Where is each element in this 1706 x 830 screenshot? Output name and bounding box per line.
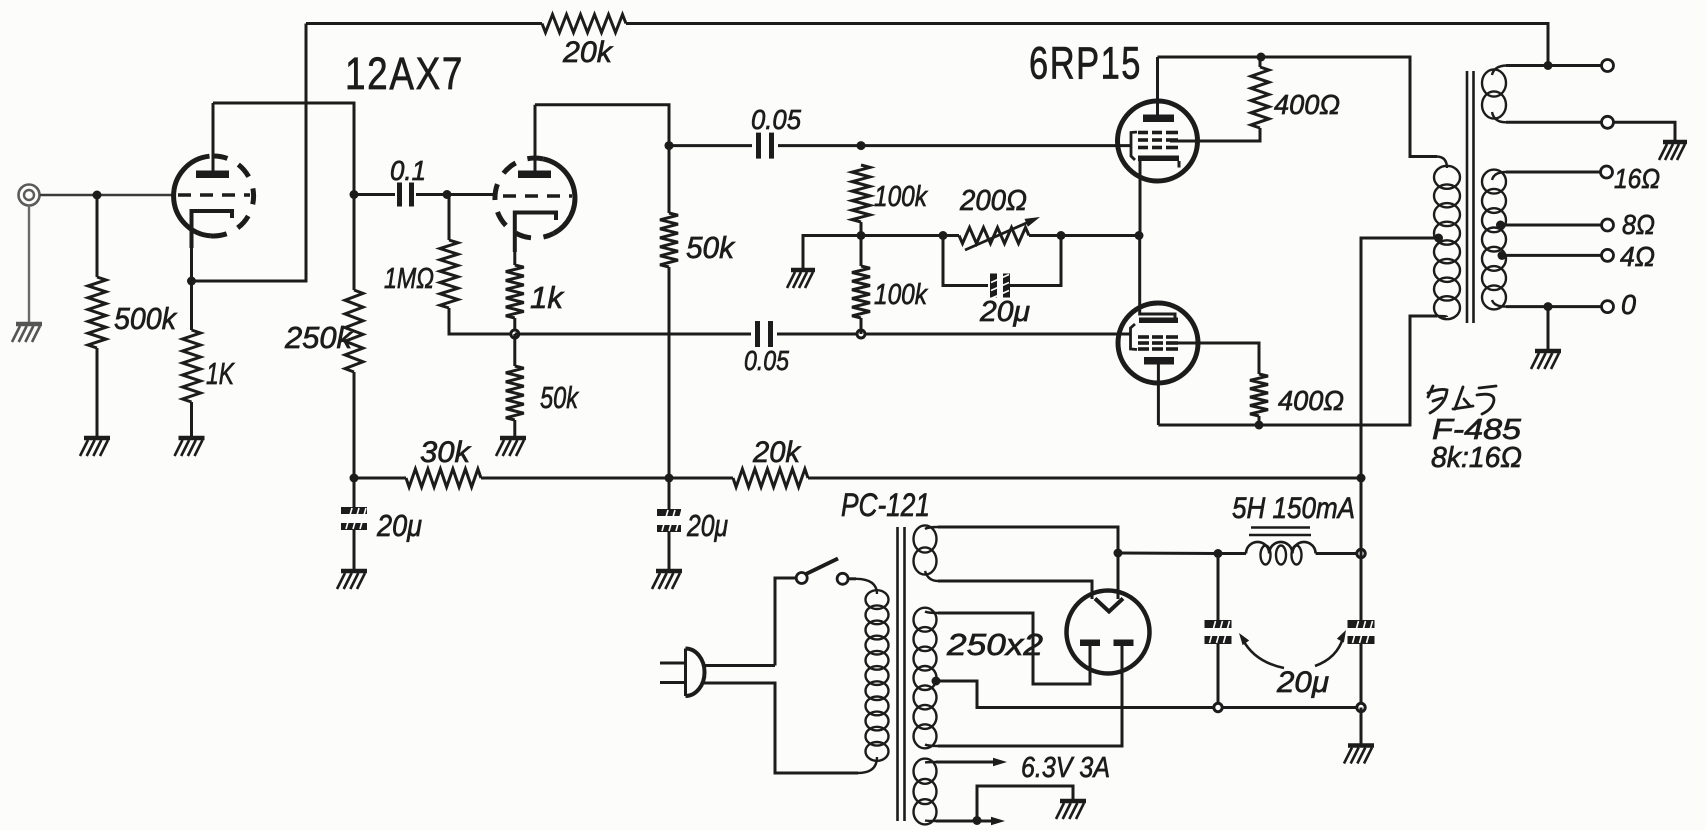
svg-text:100k: 100k xyxy=(874,279,928,311)
node rail left xyxy=(350,474,359,483)
label 20u right xyxy=(686,508,728,543)
wire 8 ohm tap xyxy=(1501,224,1602,227)
terminal feedback bottom xyxy=(1602,116,1614,128)
terminal 16 ohm xyxy=(1601,166,1613,178)
wire 6.3V bottom lead xyxy=(936,817,1005,825)
svg-text:50k: 50k xyxy=(540,380,579,415)
svg-text:30k: 30k xyxy=(420,436,472,469)
ground bias network xyxy=(787,270,815,288)
terminal 0 xyxy=(1602,301,1614,313)
node V1b cathode xyxy=(511,330,519,338)
label 1K xyxy=(206,356,235,391)
label 0.1 xyxy=(390,155,426,186)
wire cathode node to 50k xyxy=(513,334,516,366)
svg-text:500k: 500k xyxy=(114,301,177,336)
svg-text:PC-121: PC-121 xyxy=(841,487,930,523)
node return left xyxy=(1214,703,1222,711)
svg-text:0.05: 0.05 xyxy=(744,345,789,376)
triode V1b grid dashes xyxy=(503,194,572,198)
wire 5V top to B+ node xyxy=(938,527,1118,553)
label 6RP15 xyxy=(1029,38,1142,89)
label 20u filter xyxy=(1276,666,1329,699)
label 20k feedback xyxy=(562,36,614,69)
capacitor 20u decoupling right xyxy=(657,509,682,532)
node 4 ohm tap xyxy=(1498,251,1507,260)
rectifier tube envelope xyxy=(1067,591,1150,674)
node 400 ohm upper xyxy=(1257,53,1266,62)
ground main filter xyxy=(1344,746,1374,764)
wire grid node to 1M xyxy=(447,195,449,241)
node 100k mid xyxy=(857,231,866,240)
wire B+ rail left segment xyxy=(354,477,406,480)
wire input jack to grid V1a xyxy=(40,194,173,197)
wire 20u right leads xyxy=(668,478,671,570)
pentode upper cathode xyxy=(1138,156,1179,168)
node feedback takeoff xyxy=(1544,61,1553,70)
node 0 tap ground xyxy=(1544,302,1553,311)
resistor 500k grid leak xyxy=(88,277,106,348)
label 30k xyxy=(420,436,472,469)
pentode upper grid bracket xyxy=(1131,132,1137,160)
svg-text:250x2: 250x2 xyxy=(946,627,1043,662)
svg-text:0.05: 0.05 xyxy=(751,104,801,135)
inductor choke 5H 150mA xyxy=(1218,528,1356,565)
wire switch to primary xyxy=(848,577,856,580)
wire lower screen lead xyxy=(1170,343,1259,374)
resistor 20k feedback xyxy=(542,15,626,33)
wire 0 tap to ground xyxy=(1547,307,1550,350)
switch power xyxy=(796,559,848,585)
wire plate node to 250k xyxy=(353,195,356,291)
wire feedback winding bottom xyxy=(1506,121,1601,124)
resistor 30k decoupling xyxy=(406,469,481,487)
pentode upper plate bar xyxy=(1143,115,1174,123)
node return right xyxy=(1357,703,1365,711)
ground feedback winding xyxy=(1659,142,1687,160)
label 5H 150mA xyxy=(1232,492,1355,525)
label 20u bypass xyxy=(979,296,1030,328)
wire lower plate lead xyxy=(1157,364,1160,425)
arrow to left filter cap xyxy=(1239,633,1284,668)
capacitor 20u decoupling left xyxy=(341,507,367,530)
wire V1a cathode to node xyxy=(190,218,193,281)
triode V1b 12AX7 envelope xyxy=(495,158,575,238)
wire jack sleeve to ground xyxy=(28,206,30,324)
wire cathode node to 1K xyxy=(190,281,193,330)
wire V1b cathode to 1k xyxy=(513,252,516,265)
svg-text:16Ω: 16Ω xyxy=(1614,163,1660,194)
resistor 400 ohm lower screen xyxy=(1250,374,1268,416)
node HV center tap xyxy=(932,677,941,686)
wire 0.05 top to upper grid xyxy=(778,144,1131,147)
pentode lower plate bar xyxy=(1144,357,1174,365)
wire upper cathode lead xyxy=(1139,160,1142,236)
wire filter right to return xyxy=(1360,644,1363,708)
potentiometer 200 ohm xyxy=(959,217,1040,250)
wire feedback winding top xyxy=(1506,64,1601,67)
triode V1a grid dashes xyxy=(178,193,250,197)
wire choke left to cap xyxy=(1217,554,1220,621)
wire V1a plate lead xyxy=(212,103,215,171)
transformer OPT secondary winding xyxy=(1482,170,1506,310)
node 6.3V ground tap xyxy=(973,816,982,825)
node 400 ohm lower xyxy=(1255,421,1264,430)
capacitor 0.05 top coupling xyxy=(759,133,772,159)
wire V1b plate lead xyxy=(534,105,537,171)
svg-text:20k: 20k xyxy=(752,436,802,469)
wire 0 tap xyxy=(1506,305,1601,308)
transformer PT core xyxy=(898,527,905,821)
wire 1k to cathode node xyxy=(513,318,516,334)
node rail right xyxy=(1357,474,1366,483)
label 20u left xyxy=(376,508,422,543)
wire 50k to ground xyxy=(513,420,516,437)
wire HV top to left anode xyxy=(938,613,1090,684)
svg-text:5H 150mA: 5H 150mA xyxy=(1232,492,1355,525)
node rectifier output xyxy=(1114,549,1123,558)
pentode lower cathode xyxy=(1139,236,1178,324)
svg-text:1MΩ: 1MΩ xyxy=(384,263,434,295)
node output cathodes xyxy=(1135,231,1144,240)
label 1M xyxy=(384,263,434,295)
wire 6.3V tap to ground xyxy=(977,786,1073,821)
wire cathode node to 0.05 bottom xyxy=(515,333,751,336)
ground input jack xyxy=(12,324,42,342)
transformer OPT primary winding xyxy=(1434,157,1460,320)
wire 50k load to B+ rail xyxy=(668,267,671,478)
svg-text:20μ: 20μ xyxy=(376,508,422,543)
wire upper plate lead xyxy=(1156,57,1159,115)
resistor 1M grid leak xyxy=(440,240,458,308)
label Tamura katakana xyxy=(1428,386,1496,414)
wire HV bottom to right anode xyxy=(938,646,1122,746)
svg-text:20μ: 20μ xyxy=(686,508,728,543)
svg-text:8k:16Ω: 8k:16Ω xyxy=(1431,442,1522,474)
label 0 terminal xyxy=(1621,289,1636,320)
resistor 1K V1a cathode xyxy=(183,330,201,402)
pentode upper grids xyxy=(1138,133,1178,148)
label F-485 xyxy=(1432,414,1522,446)
triode V1b plate bar xyxy=(518,171,551,179)
wire 20u bypass right xyxy=(1010,236,1061,286)
wire plate node to 0.1 cap xyxy=(354,193,395,196)
resistor 1k V1b cathode xyxy=(506,265,524,318)
node OPT center tap xyxy=(1434,234,1443,243)
input jack J1 xyxy=(19,185,40,206)
wire 400 ohm lower to plate line xyxy=(1258,416,1261,425)
ground 20u right xyxy=(652,571,682,589)
wire 0.05 bottom to lower grid xyxy=(777,333,1131,336)
label 20k rail xyxy=(752,436,802,469)
node rail mid xyxy=(665,474,674,483)
triode V1a cathode xyxy=(192,211,233,248)
rectifier filament V xyxy=(1095,599,1123,612)
svg-text:20μ: 20μ xyxy=(979,296,1030,328)
label 250x2 xyxy=(946,627,1043,662)
ground 1K xyxy=(175,438,205,456)
resistor 20k decoupling xyxy=(733,469,808,487)
triode V1a plate bar xyxy=(196,171,229,179)
wire V1b plate to 50k load xyxy=(535,105,669,213)
terminal 8 ohm xyxy=(1602,219,1614,231)
capacitor 20u filter right xyxy=(1348,620,1375,644)
wire 250k to B+ rail xyxy=(353,372,356,478)
wire 5V bottom to rectifier xyxy=(938,581,1092,599)
node V1a cathode xyxy=(187,277,196,286)
wire 1M to cathode node xyxy=(449,308,515,334)
wire filter left to return xyxy=(1217,644,1220,708)
wire 500k to ground xyxy=(96,348,99,437)
capacitor 0.05 bottom coupling xyxy=(758,321,771,347)
label 1k V1b xyxy=(530,280,565,315)
triode V1b cathode xyxy=(515,213,556,253)
node 100k bottom xyxy=(857,330,865,338)
label 500k xyxy=(114,301,177,336)
transformer OPT core xyxy=(1467,71,1474,323)
wire plate node to 0.05 top xyxy=(669,144,752,147)
plug AC xyxy=(660,649,705,697)
node input / 500k xyxy=(93,191,102,200)
label 50k plate xyxy=(686,230,735,265)
svg-text:6RP15: 6RP15 xyxy=(1029,38,1142,89)
wire feedback bottom to ground xyxy=(1614,122,1676,141)
wire grid node to V1b xyxy=(447,193,496,196)
label 200 ohm xyxy=(959,185,1027,217)
capacitor 20u cathode bypass xyxy=(990,274,1010,299)
label 50k cathode xyxy=(540,380,579,415)
wire rectifier to choke xyxy=(1118,552,1218,556)
label 8 ohm xyxy=(1622,209,1655,240)
label 400 ohm upper xyxy=(1274,89,1340,120)
wire HV center tap return xyxy=(936,681,1361,708)
ground 500k xyxy=(80,438,110,456)
wire upper screen lead xyxy=(1170,128,1260,141)
triode V1a 12AX7 envelope xyxy=(174,156,254,236)
wire switch to plug riser xyxy=(775,578,796,666)
wire 20u bypass left xyxy=(943,236,988,286)
svg-text:400Ω: 400Ω xyxy=(1274,89,1340,120)
node 8 ohm tap xyxy=(1496,221,1505,230)
capacitor 0.1 coupling xyxy=(400,183,412,207)
svg-text:20k: 20k xyxy=(562,36,614,69)
transformer PT HV winding xyxy=(914,608,939,749)
wire 1K to ground xyxy=(190,402,193,437)
svg-text:200Ω: 200Ω xyxy=(959,185,1027,217)
svg-text:100k: 100k xyxy=(874,181,928,213)
wire plug top xyxy=(704,664,775,667)
resistor 50k plate load xyxy=(660,213,678,267)
transformer OPT feedback winding xyxy=(1482,66,1506,123)
wire lower plate line xyxy=(1158,316,1437,425)
label 100k top xyxy=(874,181,928,213)
svg-text:8Ω: 8Ω xyxy=(1622,209,1655,240)
wire B+ rail right segment xyxy=(808,477,1361,480)
svg-text:0.1: 0.1 xyxy=(390,155,426,186)
wire 20u left leads xyxy=(353,478,356,570)
resistor 400 ohm upper screen xyxy=(1251,67,1269,128)
transformer PT primary winding xyxy=(856,579,889,773)
resistor 100k top xyxy=(852,165,870,222)
label 250k xyxy=(284,320,353,355)
pentode lower grids xyxy=(1138,337,1178,349)
wire 4 ohm tap xyxy=(1502,254,1601,257)
ground heater xyxy=(1056,801,1086,819)
wire B+ rail mid segment xyxy=(481,477,733,480)
arrow to right filter cap xyxy=(1315,630,1346,666)
wire 0.1 cap to grid node xyxy=(416,193,447,196)
wire mid node to ground stub xyxy=(803,236,861,270)
svg-text:12AX7: 12AX7 xyxy=(345,48,464,99)
wire node to 500k xyxy=(96,195,99,277)
label 12AX7 xyxy=(345,48,464,99)
svg-text:20μ: 20μ xyxy=(1276,666,1329,699)
label PC-121 xyxy=(841,487,930,523)
label 100k bottom xyxy=(874,279,928,311)
svg-text:50k: 50k xyxy=(686,230,735,265)
node pot left xyxy=(939,231,948,240)
wire return to ground xyxy=(1360,708,1363,745)
node pot right xyxy=(1057,231,1066,240)
node 100k top xyxy=(857,141,866,150)
svg-text:400Ω: 400Ω xyxy=(1278,385,1344,416)
rectifier anode left xyxy=(1080,640,1100,647)
capacitor 20u filter left xyxy=(1205,620,1232,644)
label 0.05 top xyxy=(751,104,801,135)
node V1b grid xyxy=(443,190,452,199)
svg-text:4Ω: 4Ω xyxy=(1620,241,1655,272)
ground 50k cathode xyxy=(496,438,526,456)
wire mid node to pot xyxy=(861,234,959,237)
label 6.3V 3A xyxy=(1021,752,1110,784)
label 16 ohm xyxy=(1614,163,1660,194)
svg-text:0: 0 xyxy=(1621,289,1636,320)
label 0.05 bottom xyxy=(744,345,789,376)
svg-text:250k: 250k xyxy=(284,320,353,355)
wire B+ riser xyxy=(1360,478,1363,620)
wire rectifier filament lead xyxy=(1117,553,1120,599)
ground OPT secondary xyxy=(1531,351,1561,369)
wire 16 ohm tap xyxy=(1506,171,1600,174)
pentode lower grid bracket xyxy=(1131,324,1138,350)
wire cathode node to feedback riser xyxy=(192,24,307,282)
wire feedback rail left xyxy=(306,22,542,25)
label 4 ohm xyxy=(1620,241,1655,272)
label 8k:16ohm xyxy=(1431,442,1522,474)
wire upper plate line xyxy=(1158,57,1438,157)
node choke left xyxy=(1214,549,1223,558)
wire feedback rail right xyxy=(626,24,1548,66)
svg-text:1K: 1K xyxy=(206,356,235,391)
resistor 50k V1b cathode xyxy=(506,366,524,420)
label 400 ohm lower xyxy=(1278,385,1344,416)
wire pot to cathode junction xyxy=(1029,234,1139,237)
wire 6.3V top lead xyxy=(936,758,1007,766)
resistor 250k plate load xyxy=(345,290,363,372)
ground 20u left xyxy=(337,571,367,589)
terminal 4 ohm xyxy=(1602,249,1614,261)
rectifier anode right xyxy=(1114,640,1134,647)
terminal feedback top xyxy=(1602,60,1614,72)
resistor 100k bottom xyxy=(852,266,870,318)
transformer PT heater5V winding xyxy=(914,525,939,581)
pentode lower 6RP15 envelope xyxy=(1118,303,1198,383)
transformer PT heater63 winding xyxy=(914,759,937,825)
wire 100k bottom wires xyxy=(860,236,863,335)
wire 100k top to mid node xyxy=(860,222,863,236)
svg-text:1k: 1k xyxy=(530,280,565,315)
node V1b plate / 0.05 xyxy=(665,141,674,150)
node V1a plate / 0.1 / 250k xyxy=(350,190,359,199)
wire OPT center tap to B+ xyxy=(1361,238,1439,478)
node choke right xyxy=(1357,549,1365,557)
pentode upper 6RP15 envelope xyxy=(1118,101,1198,181)
svg-text:6.3V 3A: 6.3V 3A xyxy=(1021,752,1110,784)
wire V1a plate to coupling node xyxy=(213,103,354,195)
wire plug bottom to primary xyxy=(704,683,858,773)
wire 400 ohm to plate line xyxy=(1259,57,1262,67)
